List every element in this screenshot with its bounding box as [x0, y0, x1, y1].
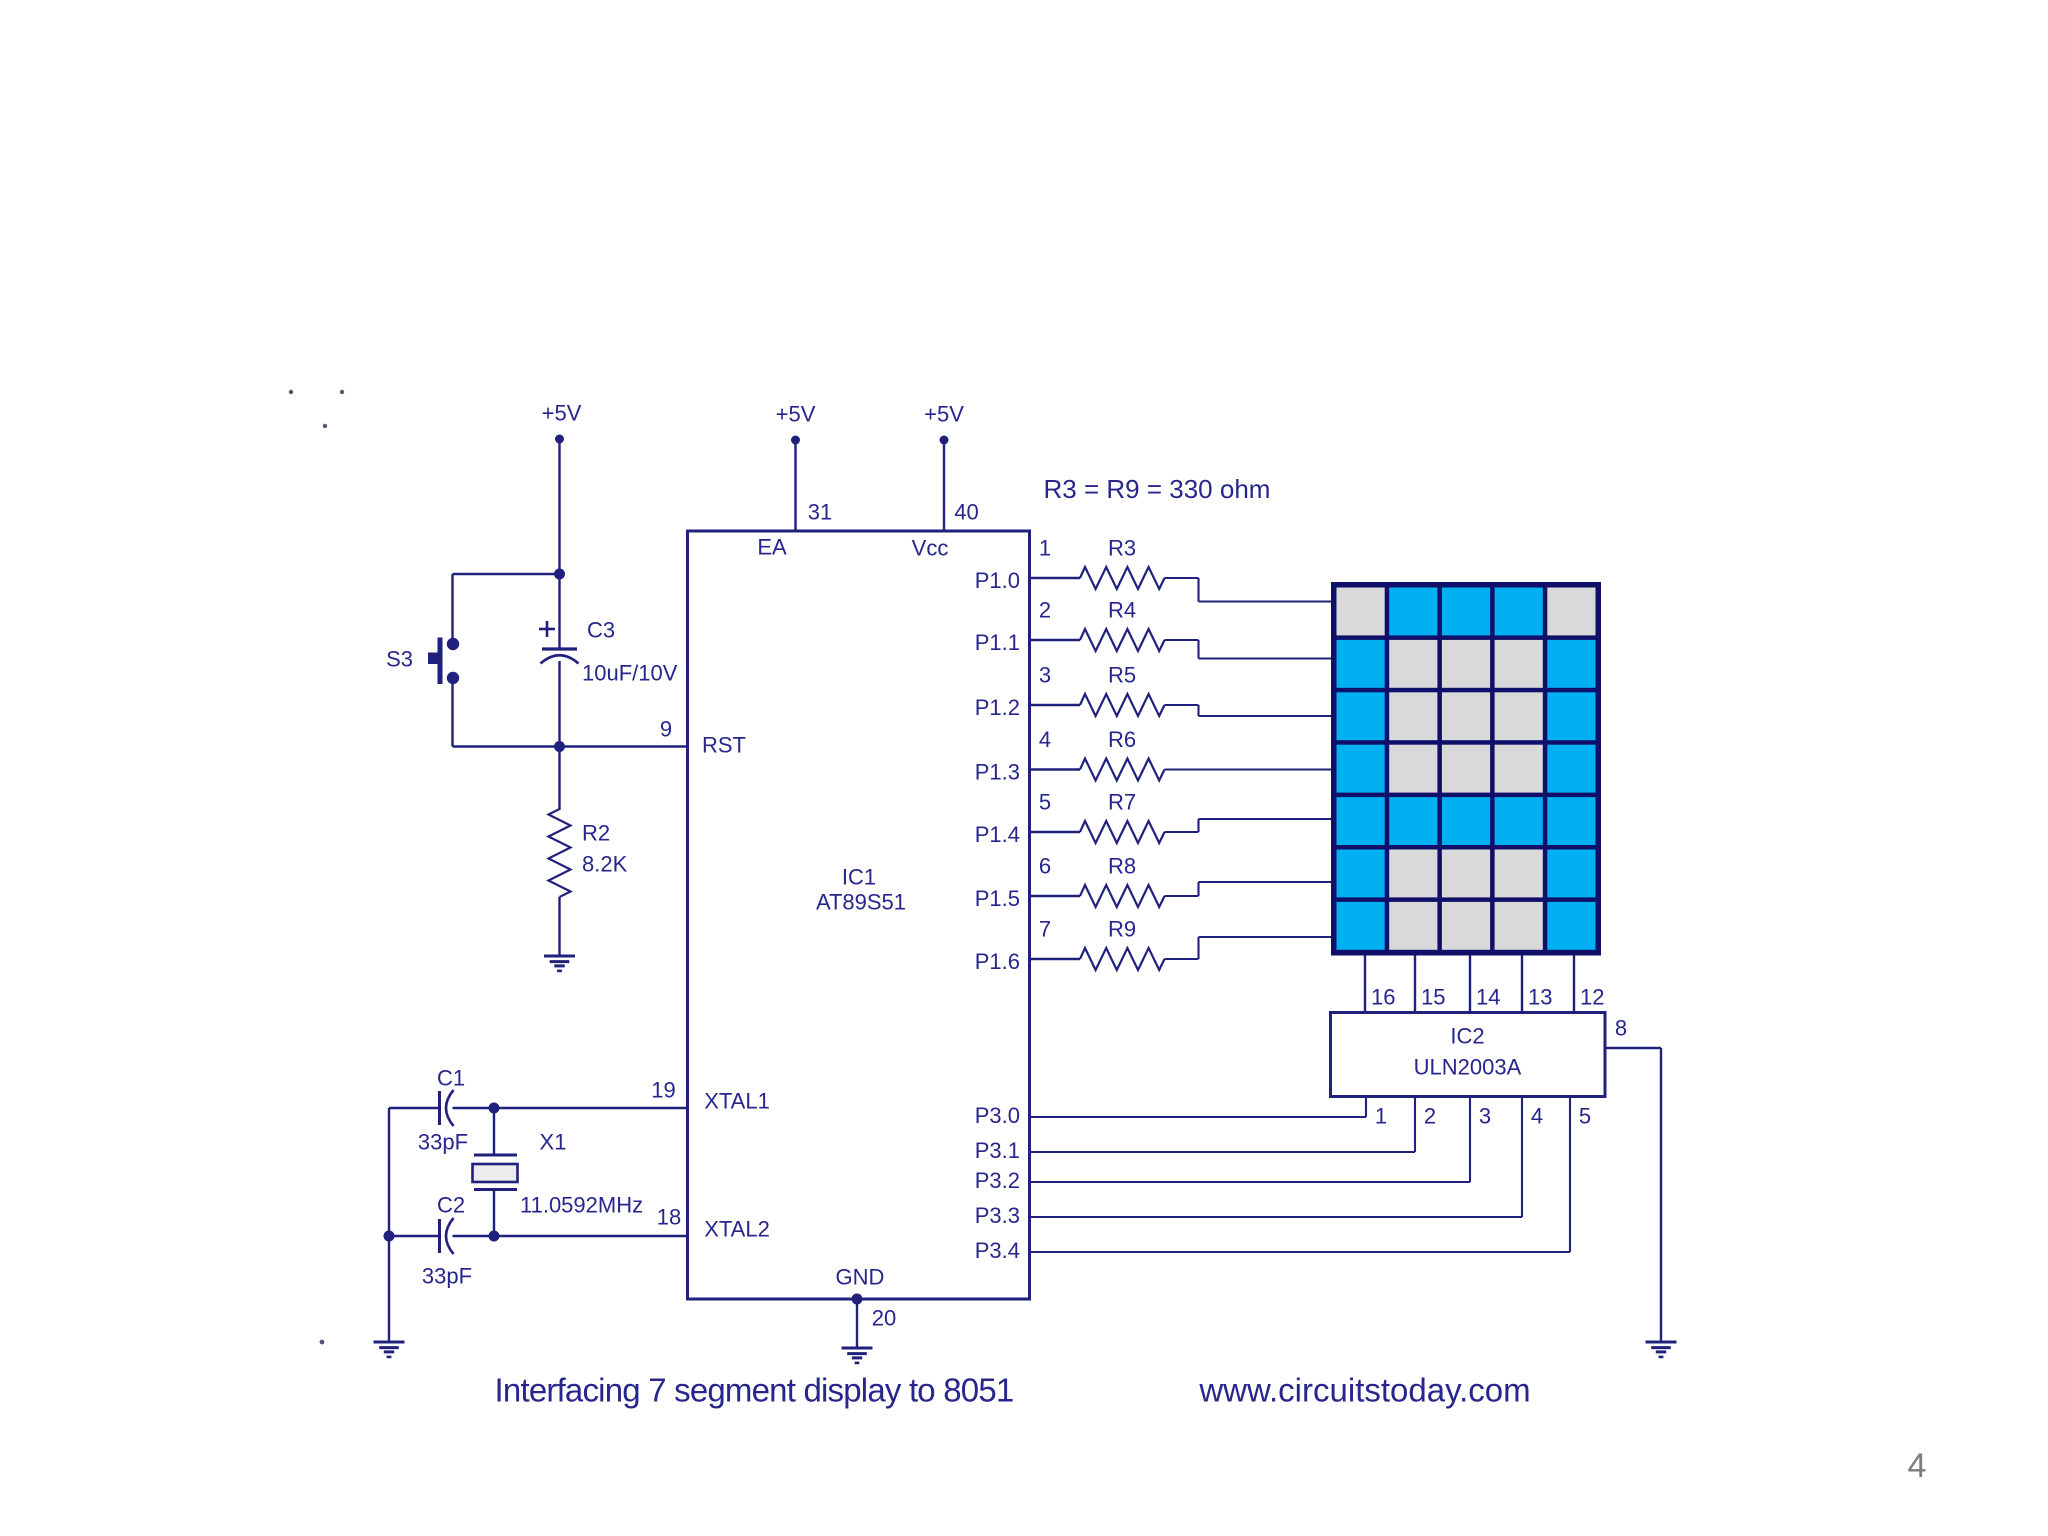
resistor R3 330 ohm [1080, 536, 1164, 589]
wire IC2 pin 8 to ground [1605, 1048, 1661, 1342]
svg-text:S3: S3 [386, 647, 413, 672]
svg-text:C1: C1 [437, 1066, 465, 1091]
svg-text:R3: R3 [1108, 536, 1136, 561]
pin name P1.0 [975, 568, 1020, 593]
pin label 20 [872, 1306, 896, 1331]
resistor R8 330 ohm [1080, 854, 1164, 907]
svg-text:P1.3: P1.3 [975, 760, 1020, 785]
svg-text:14: 14 [1476, 985, 1500, 1010]
svg-text:10uF/10V: 10uF/10V [582, 661, 678, 686]
svg-text:C2: C2 [437, 1193, 465, 1218]
svg-text:P3.2: P3.2 [975, 1168, 1020, 1193]
pin label 18 [657, 1205, 681, 1230]
pin number 7 [1039, 917, 1051, 942]
pin name P3.4 [975, 1238, 1020, 1263]
svg-text:R9: R9 [1108, 917, 1136, 942]
pin name P3.0 [975, 1103, 1020, 1128]
svg-text:Interfacing 7 segment display: Interfacing 7 segment display to 8051 [495, 1372, 1014, 1409]
node junction top of S3 branch [554, 569, 565, 580]
wire matrix column to IC2 pin 16 [1364, 956, 1366, 1013]
wire C3 to RST junction [558, 661, 560, 810]
ground (reset network) [544, 956, 575, 971]
svg-text:C3: C3 [587, 618, 615, 643]
svg-text:6: 6 [1039, 854, 1051, 879]
svg-text:GND: GND [836, 1265, 885, 1290]
pin number 1 [1039, 536, 1051, 561]
wire P3.3 to IC2 pin 4 [1030, 1097, 1523, 1218]
pin number 16 [1371, 985, 1395, 1010]
capacitor C1 33pF [418, 1066, 468, 1155]
wire P1.6 pin to resistor [1030, 958, 1081, 960]
wire P1.4 pin to resistor [1030, 831, 1081, 833]
svg-text:P3.3: P3.3 [975, 1203, 1020, 1228]
page number 4 [1908, 1447, 1927, 1485]
wire P3.1 to IC2 pin 2 [1030, 1097, 1416, 1153]
capacitor C2 33pF [422, 1193, 472, 1289]
node RST junction [554, 741, 565, 752]
pin number 4 [1039, 727, 1051, 752]
pin number 3 [1039, 663, 1051, 688]
power +5V node (EA pin 31) [776, 402, 816, 445]
svg-text:2: 2 [1424, 1104, 1436, 1129]
svg-text:AT89S51: AT89S51 [816, 890, 906, 915]
caption title [495, 1372, 1014, 1409]
svg-text:www.circuitstoday.com: www.circuitstoday.com [1198, 1372, 1530, 1409]
svg-text:31: 31 [808, 500, 832, 525]
svg-text:P3.1: P3.1 [975, 1138, 1020, 1163]
caption website [1198, 1372, 1530, 1409]
node XTAL2 left junction [384, 1231, 395, 1242]
pin name P1.3 [975, 760, 1020, 785]
svg-text:P1.2: P1.2 [975, 695, 1020, 720]
wire matrix column to IC2 pin 15 [1414, 956, 1416, 1013]
svg-text:+5V: +5V [776, 402, 816, 427]
pin name EA [757, 535, 787, 560]
pin number 5 (IC2) [1579, 1104, 1591, 1129]
svg-text:R5: R5 [1108, 663, 1136, 688]
svg-text:20: 20 [872, 1306, 896, 1331]
wire +5V to Vcc pin [943, 440, 945, 531]
svg-text:4: 4 [1908, 1447, 1927, 1485]
pin number 3 (IC2) [1479, 1104, 1491, 1129]
crystal X1 11.0592MHz [473, 1130, 644, 1218]
svg-text:13: 13 [1528, 985, 1552, 1010]
power +5V node (Vcc pin 40) [924, 402, 964, 445]
pin name P1.6 [975, 949, 1020, 974]
pin name P1.4 [975, 822, 1020, 847]
ground (IC2 pin 8) [1646, 1342, 1677, 1357]
svg-text:16: 16 [1371, 985, 1395, 1010]
wire left rail C1/C2 to ground [388, 1108, 390, 1342]
pin name P3.2 [975, 1168, 1020, 1193]
svg-text:R2: R2 [582, 821, 610, 846]
LED dot matrix display 5x7 (letter A) [1331, 582, 1601, 956]
pin number 15 [1421, 985, 1445, 1010]
node XTAL1 junction [489, 1103, 500, 1114]
wire R4 to LED matrix row [1165, 640, 1332, 659]
resistor R7 330 ohm [1080, 790, 1164, 843]
wire matrix column to IC2 pin 13 [1521, 956, 1523, 1013]
svg-text:R6: R6 [1108, 727, 1136, 752]
svg-text:P1.4: P1.4 [975, 822, 1020, 847]
svg-text:3: 3 [1479, 1104, 1491, 1129]
svg-text:XTAL2: XTAL2 [704, 1217, 770, 1242]
pin label 31 [808, 500, 832, 525]
pin name P1.5 [975, 886, 1020, 911]
svg-text:19: 19 [651, 1078, 675, 1103]
wire XTAL1 net [389, 1107, 688, 1109]
svg-text:40: 40 [954, 500, 978, 525]
wire R6 to LED matrix row [1165, 768, 1332, 770]
wire matrix column to IC2 pin 12 [1573, 956, 1575, 1013]
svg-text:IC2: IC2 [1450, 1024, 1484, 1049]
svg-text:+5V: +5V [542, 401, 582, 426]
svg-text:X1: X1 [540, 1130, 567, 1155]
wire P3.0 to IC2 pin 1 [1030, 1097, 1367, 1118]
wire branch to switch S3 [453, 574, 560, 640]
wire R2 to ground [558, 897, 560, 956]
svg-text:11.0592MHz: 11.0592MHz [520, 1193, 643, 1218]
svg-text:ULN2003A: ULN2003A [1414, 1055, 1522, 1080]
pin number 14 [1476, 985, 1500, 1010]
wire R9 to LED matrix row [1165, 937, 1332, 959]
svg-text:+5V: +5V [924, 402, 964, 427]
svg-text:XTAL1: XTAL1 [704, 1089, 770, 1114]
pin number 6 [1039, 854, 1051, 879]
svg-text:5: 5 [1579, 1104, 1591, 1129]
svg-text:33pF: 33pF [422, 1264, 472, 1289]
svg-text:2: 2 [1039, 598, 1051, 623]
pin name RST [702, 733, 746, 758]
pin number 1 (IC2) [1375, 1104, 1387, 1129]
pin label 9 [660, 717, 672, 742]
pin name GND [836, 1265, 885, 1290]
svg-text:8: 8 [1615, 1016, 1627, 1041]
resistor R4 330 ohm [1080, 598, 1164, 651]
svg-text:RST: RST [702, 733, 746, 758]
svg-text:R3 = R9 = 330 ohm: R3 = R9 = 330 ohm [1044, 474, 1271, 504]
wire GND pin to ground [856, 1299, 858, 1348]
svg-text:P1.1: P1.1 [975, 630, 1020, 655]
ground (crystal network) [374, 1342, 405, 1357]
pin name XTAL2 [704, 1217, 770, 1242]
svg-text:Vcc: Vcc [912, 536, 949, 561]
pin name XTAL1 [704, 1089, 770, 1114]
resistor R9 330 ohm [1080, 917, 1164, 970]
svg-text:1: 1 [1375, 1104, 1387, 1129]
svg-text:R8: R8 [1108, 854, 1136, 879]
resistor R6 330 ohm [1080, 727, 1164, 780]
svg-text:9: 9 [660, 717, 672, 742]
wire R3 to LED matrix row [1165, 578, 1332, 602]
wire R7 to LED matrix row [1165, 819, 1332, 832]
pin name P3.3 [975, 1203, 1020, 1228]
pin number 8 [1615, 1016, 1627, 1041]
pin number 2 (IC2) [1424, 1104, 1436, 1129]
svg-text:3: 3 [1039, 663, 1051, 688]
pin name P1.1 [975, 630, 1020, 655]
svg-text:4: 4 [1531, 1104, 1543, 1129]
wire P1.2 pin to resistor [1030, 704, 1081, 706]
wire P1.3 pin to resistor [1030, 768, 1081, 770]
svg-text:P1.6: P1.6 [975, 949, 1020, 974]
svg-text:15: 15 [1421, 985, 1445, 1010]
svg-text:7: 7 [1039, 917, 1051, 942]
wire P3.4 to IC2 pin 5 [1030, 1097, 1571, 1253]
svg-text:IC1: IC1 [842, 865, 876, 890]
svg-text:18: 18 [657, 1205, 681, 1230]
IC U1 AT89S51 body [688, 531, 1030, 1299]
node XTAL2 crystal junction [489, 1231, 500, 1242]
wire P1.1 pin to resistor [1030, 639, 1081, 641]
capacitor C3 (10uF/10V electrolytic) [539, 618, 678, 686]
note R3 = R9 = 330 ohm [1044, 474, 1271, 504]
wire S3 to RST net [453, 684, 688, 747]
svg-text:1: 1 [1039, 536, 1051, 561]
svg-text:R7: R7 [1108, 790, 1136, 815]
svg-text:4: 4 [1039, 727, 1051, 752]
svg-text:P3.4: P3.4 [975, 1238, 1020, 1263]
svg-text:8.2K: 8.2K [582, 852, 628, 877]
svg-text:P1.0: P1.0 [975, 568, 1020, 593]
IC U2 ULN2003A body [1331, 1013, 1606, 1097]
pin name P3.1 [975, 1138, 1020, 1163]
pin label 40 [954, 500, 978, 525]
pin number 12 [1580, 985, 1604, 1010]
wire R8 to LED matrix row [1165, 882, 1332, 896]
pin number 4 (IC2) [1531, 1104, 1543, 1129]
wire P1.5 pin to resistor [1030, 895, 1081, 897]
power +5V node (reset branch) [542, 401, 582, 444]
pin number 13 [1528, 985, 1552, 1010]
pin name P1.2 [975, 695, 1020, 720]
wire crystal to XTAL nets [493, 1108, 495, 1236]
resistor R2 8.2K [549, 809, 628, 897]
pin number 5 [1039, 790, 1051, 815]
svg-text:R4: R4 [1108, 598, 1136, 623]
wire matrix column to IC2 pin 14 [1469, 956, 1471, 1013]
resistor R5 330 ohm [1080, 663, 1164, 716]
pin number 2 [1039, 598, 1051, 623]
wire +5V down to C3 [558, 439, 560, 648]
wire P3.2 to IC2 pin 3 [1030, 1097, 1471, 1183]
wire P1.0 pin to resistor [1030, 577, 1081, 579]
svg-text:12: 12 [1580, 985, 1604, 1010]
pin label 19 [651, 1078, 675, 1103]
switch S3 (push button) [386, 638, 459, 685]
svg-text:P3.0: P3.0 [975, 1103, 1020, 1128]
node GND pin junction [852, 1294, 863, 1305]
svg-text:33pF: 33pF [418, 1130, 468, 1155]
svg-text:P1.5: P1.5 [975, 886, 1020, 911]
ground (IC1 GND) [842, 1348, 873, 1363]
svg-text:EA: EA [757, 535, 787, 560]
wire +5V to EA pin [794, 440, 796, 531]
wire XTAL2 net [389, 1235, 688, 1237]
pin name Vcc [912, 536, 949, 561]
wire R5 to LED matrix row [1165, 705, 1332, 716]
svg-text:5: 5 [1039, 790, 1051, 815]
